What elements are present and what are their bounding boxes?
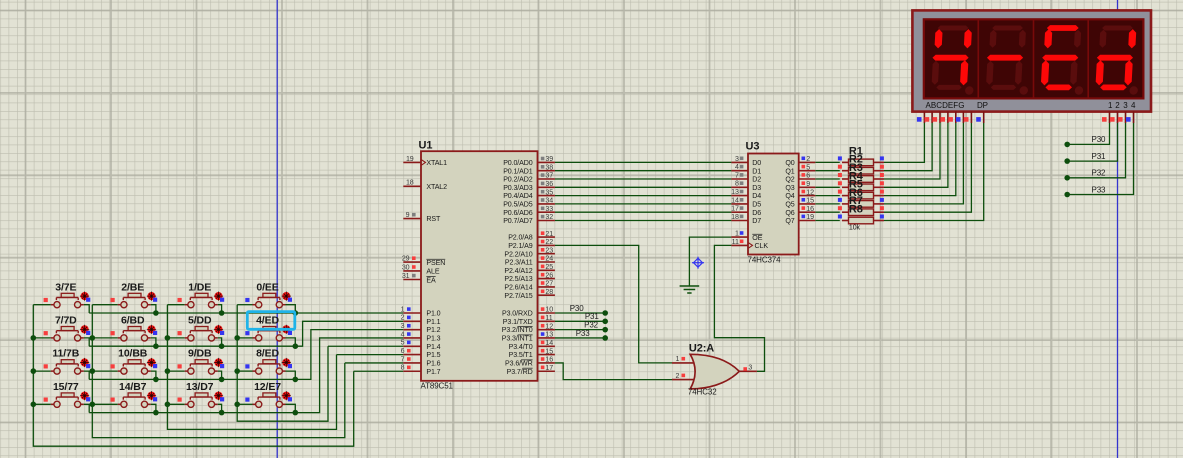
wire P3.2 to net P32 — [555, 329, 605, 331]
button 14/B7 actuator marker — [147, 391, 156, 400]
U2:A output stub — [739, 370, 757, 372]
svg-text:P2.3/A11: P2.3/A11 — [505, 259, 533, 267]
U1 pin 21 P2.0 stub — [538, 236, 555, 238]
svg-text:D6: D6 — [752, 209, 761, 217]
svg-text:15: 15 — [806, 197, 814, 205]
wire R1 to segment A — [884, 123, 924, 162]
junction row2 bus / col3 drop — [219, 343, 225, 349]
svg-text:PSEN: PSEN — [426, 259, 445, 267]
svg-text:23: 23 — [545, 246, 553, 254]
wire keypad row4 col2 right drop — [151, 404, 156, 412]
svg-text:Q3: Q3 — [785, 184, 794, 192]
U1 pin 34 P0.5 stub — [538, 203, 555, 205]
svg-text:13: 13 — [731, 188, 739, 196]
svg-text:33: 33 — [545, 205, 553, 213]
svg-text:32: 32 — [545, 213, 553, 221]
svg-text:P0.0/AD0: P0.0/AD0 — [503, 159, 533, 167]
U1 pin 12 P3.2 stub — [538, 329, 555, 331]
push button 8/ED — [253, 360, 286, 375]
svg-text:P1.1: P1.1 — [426, 318, 440, 326]
U1 pin 22 P2.1 stub — [538, 244, 555, 246]
junction row2 bus / col2 drop — [153, 343, 159, 349]
junction row3 bus / col2 drop — [153, 377, 159, 383]
svg-text:2: 2 — [806, 155, 810, 163]
wire column 3 to P1.5 — [337, 354, 404, 356]
display pin G stub — [970, 112, 972, 124]
U1 pin 17 P3.7 stub — [538, 370, 555, 372]
button 8/ED actuator marker — [282, 358, 291, 367]
U1 pin 1 P1.0 stub — [403, 312, 421, 314]
button 8/ED left state square — [245, 364, 249, 368]
svg-text:P2.7/A15: P2.7/A15 — [504, 292, 532, 300]
U3 pin 2 Q0 stub — [799, 161, 816, 163]
U3 pin 4 D1 stub — [731, 170, 748, 172]
push button 14/B7 — [118, 393, 151, 408]
op-amp U2:A body (74HC32 OR gate) — [690, 354, 739, 389]
svg-text:6: 6 — [806, 172, 810, 180]
svg-text:D0: D0 — [752, 159, 761, 167]
wire keypad row4 col3 left lead — [167, 403, 184, 405]
wire R4 to segment D — [884, 123, 948, 187]
svg-text:27: 27 — [545, 280, 553, 288]
svg-text:D5: D5 — [752, 201, 761, 209]
svg-text:11: 11 — [732, 238, 739, 246]
display digit-select pin 1 stub — [1109, 112, 1111, 124]
wire keypad row1 col3 right drop — [218, 305, 222, 313]
svg-text:37: 37 — [545, 172, 553, 180]
svg-text:Q0: Q0 — [785, 159, 794, 167]
U1 pin 6 P1.5 stub — [403, 354, 421, 356]
U3 pin 17 D6 stub — [731, 211, 748, 213]
U3 pin 12 Q4 stub — [799, 195, 816, 197]
wire P0.3 to D3 — [555, 186, 732, 188]
display digit dividers — [977, 19, 979, 98]
button 9/DB right state square — [220, 364, 224, 368]
wire keypad row4 col1 left lead — [33, 403, 51, 405]
wire OR gate output to U3 CLK — [714, 245, 764, 371]
svg-text:CLK: CLK — [755, 242, 769, 250]
svg-text:P0.1/AD1: P0.1/AD1 — [503, 167, 533, 175]
U1 pin 24 P2.3 stub — [538, 261, 555, 263]
push button 0/EE — [253, 293, 286, 308]
wire keypad row3 col3 right drop — [218, 371, 222, 379]
wire P3.6/WR to OR gate input 2 — [555, 363, 672, 380]
button 5/DD left state square — [178, 331, 182, 335]
svg-text:P3.0/RXD: P3.0/RXD — [502, 310, 533, 318]
wire keypad row1 col1 right drop — [84, 305, 89, 313]
push button 3/7E — [51, 293, 84, 308]
junction column2 / row3 — [90, 368, 96, 374]
wire keypad column 1 vertical — [33, 305, 353, 447]
svg-text:3: 3 — [1123, 101, 1128, 110]
push button 9/DB — [185, 360, 218, 375]
junction row1 bus / col4 drop — [293, 310, 299, 316]
svg-text:U1: U1 — [419, 140, 433, 152]
wire keypad row1 col4 left lead — [237, 304, 252, 306]
svg-text:31: 31 — [402, 272, 410, 280]
display digit-select pin 4 stub — [1133, 112, 1135, 124]
wire keypad row3 col4 right drop — [286, 371, 296, 379]
sheet border line right — [1117, 0, 1119, 458]
svg-text:Q2: Q2 — [785, 176, 794, 184]
svg-text:35: 35 — [545, 188, 553, 196]
svg-text:1: 1 — [401, 305, 405, 313]
wire keypad row2 col4 right drop — [286, 338, 296, 346]
button 15/77 actuator marker — [80, 391, 89, 400]
button 14/B7 left state square — [111, 398, 115, 402]
U1 pin 9 RST stub — [403, 218, 421, 220]
push button 11/7B — [51, 360, 84, 375]
button 12/E7 actuator marker — [282, 391, 291, 400]
wire keypad row3 col1 left lead — [33, 370, 51, 372]
svg-text:1: 1 — [735, 230, 739, 238]
wire keypad row3 col3 left lead — [167, 370, 184, 372]
U3 pin 7 D2 stub — [731, 178, 748, 180]
push button 13/D7 — [185, 393, 218, 408]
wire row4 bus — [89, 338, 403, 413]
svg-text:AT89C51: AT89C51 — [421, 382, 454, 391]
svg-text:P3.1/TXD: P3.1/TXD — [503, 318, 533, 326]
svg-text:16: 16 — [545, 356, 553, 364]
display panel — [924, 19, 1144, 98]
svg-text:18: 18 — [731, 213, 739, 221]
svg-text:P33: P33 — [1092, 185, 1107, 194]
U1 pin 35 P0.4 stub — [538, 195, 555, 197]
display pin F stub — [962, 112, 964, 124]
button 10/BB right state square — [153, 364, 157, 368]
svg-text:1: 1 — [1108, 101, 1113, 110]
U1 pin 16 P3.6 stub — [538, 362, 555, 364]
button 3/7E actuator marker — [80, 292, 89, 301]
U1 pin 5 P1.4 stub — [403, 345, 421, 347]
display pin D stub — [947, 112, 949, 124]
svg-text:5/DD: 5/DD — [188, 315, 212, 327]
svg-text:P2.1/A9: P2.1/A9 — [508, 242, 533, 250]
button 10/BB left state square — [111, 364, 115, 368]
7-seg digit 3 showing 'E' — [1041, 26, 1087, 95]
node P30 near display — [1064, 142, 1070, 148]
wire keypad row2 col1 left lead — [33, 337, 51, 339]
wire Q1 to R2 — [815, 170, 840, 172]
7-seg digit 2 showing '-' — [986, 26, 1032, 95]
button 7/7D actuator marker — [80, 325, 89, 334]
wire keypad row2 col2 left lead — [92, 337, 117, 339]
svg-text:ABCDEFG: ABCDEFG — [926, 101, 965, 110]
svg-text:19: 19 — [806, 213, 814, 221]
button 0/EE actuator marker — [282, 292, 291, 301]
push button 2/BE — [118, 293, 151, 308]
wire keypad column 4 vertical — [237, 305, 328, 422]
junction row4 bus / col2 drop — [153, 410, 159, 416]
U1 XTAL1 clock chevron — [421, 159, 426, 165]
wire keypad row2 col4 left lead — [237, 337, 252, 339]
svg-text:4: 4 — [735, 163, 739, 171]
button 5/DD actuator marker — [214, 325, 223, 334]
button 2/BE actuator marker — [147, 292, 156, 301]
svg-text:P30: P30 — [1092, 135, 1107, 144]
svg-text:P31: P31 — [1092, 152, 1107, 161]
junction column4 / row2 — [234, 335, 240, 341]
svg-text:3/7E: 3/7E — [55, 281, 76, 293]
svg-text:6: 6 — [401, 347, 405, 355]
button 11/7B actuator marker — [80, 358, 89, 367]
svg-text:36: 36 — [545, 180, 553, 188]
button 1/DE left state square — [178, 298, 182, 302]
svg-text:P0.6/AD6: P0.6/AD6 — [503, 209, 533, 217]
svg-text:P2.5/A13: P2.5/A13 — [504, 275, 532, 283]
svg-text:OE: OE — [752, 234, 762, 242]
wire row1 bus to P1.0 — [89, 312, 403, 314]
U1 pin 8 P1.7 stub — [403, 370, 421, 372]
svg-text:D4: D4 — [752, 192, 761, 200]
svg-text:2: 2 — [1115, 101, 1120, 110]
svg-text:18: 18 — [406, 179, 414, 187]
wire keypad row2 col3 left lead — [167, 337, 184, 339]
wire keypad row2 col1 right drop — [84, 338, 89, 346]
ground symbol — [680, 285, 700, 287]
svg-text:10/BB: 10/BB — [118, 348, 148, 360]
wire keypad row4 col4 left lead — [237, 403, 252, 405]
U1 pin 11 P3.1 stub — [538, 320, 555, 322]
U3 pin 5 Q1 stub — [799, 170, 816, 172]
svg-text:P32: P32 — [1092, 169, 1107, 178]
wire keypad row2 col2 right drop — [151, 338, 156, 346]
push button 7/7D — [51, 327, 84, 342]
junction column4 / row3 — [234, 368, 240, 374]
display pin E stub — [955, 112, 957, 124]
svg-text:8: 8 — [401, 364, 405, 372]
svg-text:Q5: Q5 — [785, 201, 794, 209]
svg-text:U2:A: U2:A — [689, 342, 714, 354]
button 2/BE left state square — [111, 298, 115, 302]
U1 pin 7 P1.6 stub — [403, 362, 421, 364]
U1 pin 28 P2.7 stub — [538, 294, 555, 296]
node P33 near U1 — [602, 335, 608, 341]
svg-text:13: 13 — [545, 331, 553, 339]
svg-text:5: 5 — [401, 339, 405, 347]
svg-text:5: 5 — [806, 163, 810, 171]
svg-text:D7: D7 — [752, 217, 761, 225]
wire Q3 to R4 — [815, 186, 840, 188]
button 6/BD left state square — [111, 331, 115, 335]
svg-text:74HC32: 74HC32 — [688, 388, 717, 397]
display pin C stub — [939, 112, 941, 124]
svg-text:13/D7: 13/D7 — [186, 381, 214, 393]
junction row3 bus / col3 drop — [219, 377, 225, 383]
svg-text:P1.2: P1.2 — [426, 326, 440, 334]
U3 pin 19 Q7 stub — [799, 220, 816, 222]
button 4/ED left state square — [245, 331, 249, 335]
7-seg digit 1 showing '4' — [931, 26, 977, 95]
svg-text:24: 24 — [545, 255, 553, 263]
wire R2 to segment B — [884, 123, 932, 171]
U3 pin 9 Q3 stub — [799, 186, 816, 188]
junction row4 bus / col3 drop — [219, 410, 225, 416]
U3 pin 3 D0 stub — [731, 161, 748, 163]
button 4/ED right state square — [288, 331, 292, 335]
button 6/BD right state square — [153, 331, 157, 335]
svg-text:7: 7 — [735, 171, 739, 179]
junction column1 / row4 — [31, 402, 37, 408]
svg-text:DP: DP — [977, 101, 988, 110]
svg-text:10: 10 — [545, 306, 553, 314]
svg-text:XTAL1: XTAL1 — [426, 159, 447, 167]
button 0/EE right state square — [288, 298, 292, 302]
U1 pin 32 P0.7 stub — [538, 220, 555, 222]
junction column3 / row2 — [165, 335, 171, 341]
junction column3 / row3 — [165, 368, 171, 374]
wire Q2 to R3 — [815, 178, 840, 180]
svg-text:16: 16 — [806, 205, 814, 213]
wire keypad row1 col4 right drop — [286, 305, 296, 313]
display digit-select pin 2 stub — [1117, 112, 1119, 124]
display pin DP stub — [983, 112, 985, 124]
svg-text:15: 15 — [545, 347, 553, 355]
svg-text:21: 21 — [545, 230, 553, 238]
node P32 near display — [1064, 175, 1070, 181]
svg-text:1/DE: 1/DE — [188, 281, 211, 293]
junction column4 / row4 — [234, 402, 240, 408]
wire P3.3 to net P33 — [555, 337, 605, 339]
wire keypad row4 col3 right drop — [218, 404, 222, 412]
svg-text:34: 34 — [545, 197, 553, 205]
7-seg digit 4 showing 'd' — [1095, 26, 1141, 95]
button 1/DE right state square — [220, 298, 224, 302]
display digit-select pin 3 stub — [1125, 112, 1127, 124]
wire P0.1 to D1 — [555, 170, 732, 172]
U1 pin 29 PSEN stub — [403, 261, 421, 263]
button 3/7E left state square — [44, 298, 48, 302]
svg-text:P0.3/AD3: P0.3/AD3 — [503, 184, 533, 192]
node P33 near display — [1064, 192, 1070, 198]
svg-text:10k: 10k — [849, 224, 861, 232]
U1 pin 2 P1.1 stub — [403, 320, 421, 322]
svg-text:15/77: 15/77 — [53, 381, 79, 393]
button 11/7B right state square — [86, 364, 90, 368]
wire display digit pin 4 to P33 node — [1067, 123, 1133, 195]
svg-text:12: 12 — [806, 188, 814, 196]
svg-text:4/ED: 4/ED — [256, 315, 279, 327]
svg-text:Q7: Q7 — [785, 217, 794, 225]
wire keypad row4 col4 right drop — [286, 404, 296, 412]
junction column1 / row3 — [31, 368, 37, 374]
svg-text:14: 14 — [545, 339, 553, 347]
svg-text:P0.2/AD2: P0.2/AD2 — [503, 176, 533, 184]
wire keypad row3 col4 left lead — [237, 370, 252, 372]
button 13/D7 right state square — [220, 397, 224, 401]
button 8/ED right state square — [288, 364, 292, 368]
wire keypad row4 col2 left lead — [92, 403, 117, 405]
button 1/DE actuator marker — [214, 292, 223, 301]
sheet border line left — [276, 0, 278, 458]
svg-text:26: 26 — [545, 271, 553, 279]
svg-text:P0.5/AD5: P0.5/AD5 — [503, 201, 533, 209]
wire R8 to segment DP — [884, 123, 984, 221]
wire R7 to segment G — [884, 123, 971, 212]
wire keypad column 3 vertical — [167, 305, 336, 430]
svg-text:P0.7/AD7: P0.7/AD7 — [503, 217, 533, 225]
svg-text:4: 4 — [401, 330, 405, 338]
svg-text:1: 1 — [676, 356, 680, 363]
svg-text:D1: D1 — [752, 167, 761, 175]
junction column2 / row2 — [90, 335, 96, 341]
U1 pin 36 P0.3 stub — [538, 186, 555, 188]
push button 15/77 — [51, 393, 84, 408]
resistor R2 — [842, 170, 849, 172]
U3 CLK clock chevron — [748, 242, 753, 248]
push button 4/ED — [253, 327, 286, 342]
wire row3 bus — [89, 330, 403, 380]
svg-text:2/BE: 2/BE — [121, 281, 144, 293]
U1 pin 27 P2.6 stub — [538, 286, 555, 288]
U3 pin 8 D3 stub — [731, 186, 748, 188]
button 13/D7 left state square — [178, 398, 182, 402]
svg-text:8/ED: 8/ED — [256, 348, 279, 360]
display pin A stub — [923, 112, 925, 124]
wire P0.4 to D4 — [555, 195, 732, 197]
svg-text:P2.2/A10: P2.2/A10 — [504, 250, 532, 258]
U3 pin 16 Q6 stub — [799, 211, 816, 213]
U1 pin 3 P1.2 stub — [403, 329, 421, 331]
svg-text:22: 22 — [545, 238, 553, 246]
wire P3.0 to net P30 — [555, 312, 605, 314]
svg-text:17: 17 — [545, 364, 553, 372]
svg-text:P2.4/A12: P2.4/A12 — [504, 267, 532, 275]
U1 pin 33 P0.6 stub — [538, 211, 555, 213]
wire keypad row2 col3 right drop — [218, 338, 222, 346]
svg-text:EA: EA — [426, 276, 436, 284]
wire keypad row1 col2 left lead — [92, 304, 117, 306]
svg-text:74HC374: 74HC374 — [748, 255, 782, 264]
4-digit 7-segment display body — [912, 10, 1151, 111]
wire column 4 to P1.4 — [328, 345, 403, 347]
wire P0.2 to D2 — [555, 178, 732, 180]
junction row1 bus / col2 drop — [153, 310, 159, 316]
svg-text:0/EE: 0/EE — [256, 281, 278, 293]
wire Q7 to R8 — [815, 220, 840, 222]
wire Q4 to R5 — [815, 195, 840, 197]
U2:A input stubs — [672, 362, 694, 364]
wire keypad row3 col2 left lead — [92, 370, 117, 372]
svg-text:9/DB: 9/DB — [188, 348, 212, 360]
wire P0.6 to D6 — [555, 211, 732, 213]
svg-text:2: 2 — [401, 314, 405, 322]
wire P0.5 to D5 — [555, 203, 732, 205]
svg-text:9: 9 — [806, 180, 810, 188]
wire R5 to segment E — [884, 123, 956, 196]
svg-text:25: 25 — [545, 263, 553, 271]
resistor R3 — [842, 178, 849, 180]
button 3/7E right state square — [86, 298, 90, 302]
U1 pin 38 P0.1 stub — [538, 170, 555, 172]
svg-text:P3.5/T1: P3.5/T1 — [509, 351, 533, 359]
wire display digit pin 1 to P30 node — [1067, 123, 1109, 144]
svg-text:ALE: ALE — [426, 268, 439, 276]
U3 pin 1 OE stub — [731, 236, 748, 238]
wire P0.0 to D0 — [555, 161, 732, 163]
U3 body (74HC374) — [748, 154, 799, 255]
button 5/DD right state square — [220, 331, 224, 335]
resistor R8 — [842, 220, 849, 222]
U1 pin 4 P1.3 stub — [403, 337, 421, 339]
U1 pin 25 P2.4 stub — [538, 269, 555, 271]
U1 pin 19 XTAL1 stub — [403, 161, 421, 163]
svg-text:P1.6: P1.6 — [426, 360, 440, 368]
wire Q0 to R1 — [815, 161, 840, 163]
button 4/ED actuator marker — [282, 325, 291, 334]
svg-text:P3.6/WR: P3.6/WR — [505, 360, 533, 368]
svg-text:P3.7/RD: P3.7/RD — [507, 368, 533, 376]
